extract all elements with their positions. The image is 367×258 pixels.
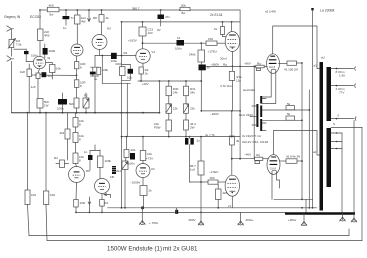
wire column 306: [305, 199, 307, 213]
svg-text:4.7k 11w: 4.7k 11w: [220, 84, 233, 88]
svg-text:R1: R1: [105, 201, 109, 205]
wire bus tail: [158, 81, 160, 113]
resistor GU81-2 screen: [279, 160, 286, 162]
wire V2 cathode: [99, 50, 101, 56]
svg-text:aU: aU: [321, 56, 325, 60]
svg-text:10R: 10R: [80, 201, 86, 205]
svg-text:a2: a2: [313, 150, 317, 154]
wire sense arrow: [88, 197, 90, 212]
svg-text:7.5k: 7.5k: [16, 42, 22, 46]
transformer output secondary bar upper: [327, 67, 332, 121]
svg-text:103: 103: [148, 31, 153, 35]
label La 230V: [311, 8, 313, 10]
resistor chain A2: [75, 80, 79, 88]
wire stub to foot +700v: [141, 208, 143, 221]
transformer heater primary bar: [256, 104, 258, 127]
svg-text:100u: 100u: [57, 107, 64, 111]
wire sub rail: [122, 21, 241, 23]
svg-text:240k: 240k: [189, 53, 196, 57]
capacitor V1 bypass: [42, 72, 47, 77]
pentode GU81-2: [267, 155, 280, 175]
resistor left col b1: [75, 113, 77, 118]
svg-text:Gegenç IN: Gegenç IN: [4, 15, 21, 19]
resistor chain A3: [74, 98, 79, 108]
svg-text:−860V: −860V: [211, 63, 220, 67]
wire S tap: [331, 127, 362, 129]
svg-text:V2: V2: [151, 167, 155, 171]
wire V4 cathode to grid R: [231, 52, 233, 72]
foot 280Vn: [240, 212, 242, 221]
resistor V1 anode: [39, 10, 41, 29]
resistor right of V1: [46, 63, 53, 65]
svg-text:2u: 2u: [197, 139, 201, 143]
vertical column x121.5: [121, 22, 123, 208]
capacitor stage2: [128, 69, 133, 74]
pentode V4 EL34: [225, 32, 239, 52]
svg-text:+10V: +10V: [142, 82, 149, 86]
svg-text:1.9U: 1.9U: [339, 73, 345, 77]
svg-text:5k: 5k: [287, 102, 291, 106]
resistor V2 anode 4k: [101, 10, 103, 15]
svg-text:3x9.2V 1.5A 10L84: 3x9.2V 1.5A 10L84: [242, 140, 269, 144]
svg-text:1u5: 1u5: [31, 85, 36, 89]
svg-text:4R5: 4R5: [44, 34, 50, 38]
capacitor cluster 100u: [62, 93, 64, 99]
node: [142, 42, 203, 44]
wire tap 8 Ohm: [331, 68, 354, 70]
pentode GU81-1: [267, 54, 280, 74]
foot right end: [353, 214, 355, 219]
svg-text:77V: 77V: [339, 90, 344, 94]
svg-text:150: 150: [210, 176, 215, 180]
resistor bottom-left 1: [25, 190, 30, 205]
svg-text:5k6: 5k6: [69, 102, 74, 106]
svg-text:2k4: 2k4: [60, 131, 65, 135]
svg-text:S: S: [333, 122, 335, 126]
svg-text:150: 150: [208, 37, 213, 41]
svg-text:4k: 4k: [106, 16, 110, 20]
svg-text:1n: 1n: [84, 150, 88, 154]
svg-text:24k: 24k: [173, 91, 178, 95]
svg-text:R4: R4: [54, 156, 58, 160]
svg-text:+ 700v: + 700v: [149, 221, 159, 225]
wire top B+ rail: [41, 9, 240, 11]
potentiometer stack1: [166, 104, 172, 114]
svg-text:1000: 1000: [49, 49, 56, 53]
triode V1: [33, 56, 45, 68]
vertical column x127.3: [126, 83, 128, 136]
svg-text:4k: 4k: [236, 139, 240, 143]
svg-text:1k: 1k: [145, 72, 149, 76]
svg-text:P5W: P5W: [154, 126, 161, 130]
svg-text:Rg: Rg: [257, 62, 261, 66]
wire grid line y43.2: [143, 42, 207, 44]
resistor GU81-2 grid: [255, 157, 263, 160]
svg-text:ECC83: ECC83: [30, 15, 41, 19]
resistor R400 on rail: [47, 7, 59, 12]
input jack 1: [7, 26, 14, 31]
wire screen column: [301, 63, 303, 199]
svg-text:5k: 5k: [287, 112, 291, 116]
wire feedback loop A: [29, 235, 349, 237]
svg-text:La 230Bit: La 230Bit: [320, 9, 334, 13]
capacitor splitter: [130, 153, 135, 160]
potentiometer trim: [85, 93, 87, 98]
svg-text:GU 8: GU 8: [269, 65, 276, 69]
resistor V4 screen: [222, 22, 224, 27]
svg-text:1k: 1k: [214, 27, 218, 31]
wire cathode link: [46, 74, 76, 76]
wire GU81-2 anode loop: [274, 131, 320, 156]
resistor R750 on rail: [180, 7, 190, 10]
svg-text:240: 240: [32, 73, 37, 77]
svg-text:42 K4b 3N: 42 K4b 3N: [286, 155, 300, 159]
svg-text:260v+: 260v+: [246, 218, 255, 222]
svg-text:−17EU: −17EU: [209, 170, 218, 174]
svg-text:R40: R40: [116, 62, 122, 66]
svg-text:0V: 0V: [157, 28, 161, 32]
svg-text:2k: 2k: [149, 189, 153, 193]
svg-text:N3: N3: [107, 27, 111, 31]
resistor heater a: [262, 109, 309, 111]
svg-text:R6: R6: [86, 169, 90, 173]
junction blob: [175, 210, 178, 214]
wire jack2 ground: [10, 48, 12, 113]
wire pot to cap: [14, 48, 26, 50]
wire y64 to GU81 grid: [206, 65, 256, 67]
resistor V4b grid: [208, 180, 218, 184]
resistor splitter top: [126, 137, 128, 150]
svg-text:100: 100: [50, 193, 55, 197]
svg-text:280V: 280V: [189, 218, 196, 222]
svg-text:FB: FB: [110, 175, 114, 179]
wire right loop vertical: [361, 128, 363, 241]
node fat junction: [141, 206, 144, 209]
transformer heater secondary bars: [260, 96, 262, 104]
wire mains feed: [250, 116, 256, 118]
resistor chain A1: [75, 62, 79, 69]
potentiometer splitter: [125, 158, 128, 162]
wire tap 4 Ohm: [331, 85, 354, 87]
svg-text:50k: 50k: [181, 4, 186, 8]
svg-text:4u: 4u: [94, 77, 98, 81]
triode V6: [69, 167, 85, 183]
grid connector glyph 2: [255, 161, 260, 164]
foot -280V: [200, 182, 202, 221]
wire bias column: [253, 66, 255, 158]
svg-text:2x EL34: 2x EL34: [210, 13, 223, 17]
resistor stack2 bottom: [184, 120, 189, 130]
svg-text:24k: 24k: [190, 91, 195, 95]
resistor bottom-left 2: [44, 191, 49, 205]
svg-text:4k5: 4k5: [223, 191, 228, 195]
svg-text:1k8: 1k8: [20, 70, 25, 74]
wire V4b cathode: [231, 196, 233, 208]
wire to V4 grid: [217, 42, 225, 44]
glyph FB dark: [112, 166, 116, 174]
resistor V6 grid: [56, 163, 60, 165]
triode V2: [92, 35, 107, 50]
resistor below V5: [142, 178, 144, 186]
resistor GU81-1 screen: [279, 62, 288, 64]
resistor stack2 top R31: [185, 81, 187, 86]
wire heater stub 2: [262, 72, 276, 103]
wire ground bus: [11, 112, 159, 114]
wire lower taps: [331, 133, 342, 149]
wire y57: [95, 55, 136, 57]
resistor stage2 b: [120, 67, 126, 76]
wire heater taps short: [252, 99, 266, 131]
wire column x309.3: [308, 90, 310, 208]
ground foot +700v: [140, 221, 146, 225]
capacitor 2u bottom path: [189, 136, 191, 138]
resistor 240k: [200, 43, 202, 50]
wire right vertical stub: [348, 229, 350, 236]
svg-text:2W: 2W: [190, 126, 195, 130]
resistor left col a: [67, 113, 69, 129]
svg-text:v1: v1: [228, 204, 232, 208]
resistor left col b2: [75, 127, 77, 133]
svg-text:100: 100: [31, 193, 36, 197]
svg-text:10k: 10k: [131, 148, 136, 152]
resistor 86k: [200, 137, 202, 161]
transformer output secondary bar lower: [327, 128, 332, 187]
wire column x312.5: [312, 10, 314, 208]
capacitor 47n at rail: [65, 10, 67, 16]
svg-text:+900v: +900v: [288, 218, 297, 222]
svg-text:100k: 100k: [105, 159, 112, 163]
svg-text:P2: P2: [84, 94, 88, 98]
svg-text:R8: R8: [93, 16, 97, 20]
wire V7 cathode: [101, 194, 103, 200]
capacitor input coupling: [24, 51, 29, 54]
grid connector glyph: [256, 68, 260, 70]
wire bottom y208: [108, 207, 317, 209]
svg-text:V1: V1: [152, 50, 156, 54]
capacitor V2 cathode: [111, 53, 117, 59]
svg-text:41: 41: [47, 56, 51, 60]
node: [121, 55, 123, 57]
svg-text:−86V: −86V: [244, 61, 251, 65]
svg-text:380.7: 380.7: [132, 6, 140, 10]
svg-text:3x 19/2V 7.1A: 3x 19/2V 7.1A: [242, 134, 261, 138]
capacitor grid blob: [44, 44, 46, 48]
svg-text:100n: 100n: [175, 47, 182, 51]
svg-text:1W: 1W: [44, 104, 49, 108]
wire V1b cathode: [76, 56, 78, 62]
resistor stack1 top R30: [168, 81, 170, 86]
wire grid left: [189, 181, 208, 183]
svg-text:−200V: −200V: [210, 112, 219, 116]
svg-text:100n: 100n: [128, 162, 135, 166]
capacitor coupling top: [177, 40, 185, 46]
triode V7: [95, 179, 110, 194]
resistor left col b3: [75, 143, 77, 154]
svg-text:−1006V: −1006V: [130, 181, 140, 185]
wire thick HV bus: [285, 212, 355, 215]
wire -200V link: [201, 110, 240, 112]
svg-text:41 100 2H: 41 100 2H: [284, 68, 298, 72]
triode V5: [136, 164, 150, 178]
resistor V4 cathode 4k7: [229, 71, 234, 80]
wire -460V stub: [232, 158, 255, 160]
resistor V4 grid: [206, 41, 217, 45]
wire feedback loop B: [47, 240, 362, 242]
svg-text:Rg: Rg: [256, 153, 260, 157]
capacitor 8n: [199, 65, 206, 71]
wire jack to pot: [10, 29, 12, 40]
triode V3: [136, 49, 150, 63]
svg-text:10k: 10k: [147, 152, 152, 156]
svg-text:10k: 10k: [56, 67, 61, 71]
svg-text:2k4: 2k4: [116, 169, 121, 173]
wire V4 anode: [231, 22, 233, 32]
wire y136.6: [122, 136, 241, 138]
resistor cluster 5k6: [37, 99, 43, 109]
svg-text:+73V: +73V: [146, 157, 153, 161]
wire feedback y81: [138, 80, 201, 82]
svg-text:−46V: −46V: [244, 152, 251, 156]
wire GU81-1 anode loop: [273, 26, 320, 69]
svg-text:GU 8: GU 8: [270, 166, 277, 170]
wire B+ column x240: [239, 10, 241, 159]
resistor heater b: [262, 119, 302, 121]
foot under bus: [342, 214, 344, 218]
resistor chain B: [94, 56, 96, 68]
wire heater stub 1: [262, 72, 271, 97]
transformer output primary bar: [320, 62, 324, 211]
pentode V4b EL34: [225, 175, 239, 196]
wire tap 0: [331, 118, 354, 120]
wire bottom y212.3: [76, 211, 285, 213]
svg-text:1u: 1u: [63, 26, 67, 30]
wire lower secondary vertical: [341, 133, 343, 214]
wire GU81-2 cathode: [272, 173, 280, 199]
svg-text:x5 1/4W: x5 1/4W: [265, 10, 276, 14]
resistor mid column: [231, 111, 233, 136]
svg-text:+17EU: +17EU: [208, 50, 217, 54]
resistor above V5: [142, 137, 144, 151]
resistor 10k top: [76, 10, 78, 15]
resistor left 1k8: [28, 68, 30, 70]
svg-text:Heiztrafo: Heiztrafo: [243, 88, 255, 92]
svg-text:10: 10: [177, 36, 181, 40]
resistor V1 cathode: [38, 69, 40, 73]
resistor stack1 bottom: [166, 120, 172, 131]
svg-text:+163V: +163V: [128, 39, 137, 43]
svg-text:4x 7.7k: 4x 7.7k: [205, 133, 215, 137]
wire y202: [274, 198, 313, 200]
resistor bias 100k: [99, 150, 101, 156]
vertical columns to bottom-left resistors: [27, 113, 29, 190]
capacitor bias left: [90, 145, 100, 151]
svg-text:22k: 22k: [190, 107, 195, 111]
svg-text:47n: 47n: [165, 15, 170, 19]
resistor V4b cathode: [217, 184, 219, 189]
capacitor 47n at rail right: [160, 10, 162, 15]
svg-text:400: 400: [49, 4, 54, 8]
svg-text:22k: 22k: [173, 107, 178, 111]
triode V1b: [71, 44, 83, 56]
input jack 2: [7, 56, 14, 61]
resistor bottom c: [74, 200, 79, 208]
svg-text:Tv: Tv: [71, 16, 75, 20]
svg-text:4W: 4W: [81, 20, 86, 24]
wire V3 cathode: [142, 63, 144, 67]
foot +900v: [303, 214, 305, 222]
svg-text:Rg: Rg: [223, 63, 227, 67]
node bus junctions: [27, 112, 161, 114]
svg-text:1500W Endstufe (1): 1500W Endstufe (1): [107, 246, 162, 253]
wire right return vertical: [353, 121, 355, 214]
potentiometer 1M: [9, 40, 14, 48]
arrow glyph: [88, 10, 91, 22]
resistor V3 anode: [142, 22, 144, 27]
resistor GU81-1 grid: [256, 65, 264, 68]
svg-text:1u0: 1u0: [190, 168, 195, 172]
svg-text:mit 2x GU81: mit 2x GU81: [163, 246, 198, 253]
svg-text:10u: 10u: [127, 76, 132, 80]
resistor stage2 a: [101, 56, 103, 84]
wire y83.3: [102, 82, 130, 84]
svg-text:a1: a1: [314, 64, 318, 68]
svg-text:20mf: 20mf: [220, 57, 227, 61]
svg-text:R4: R4: [124, 51, 128, 55]
potentiometer stack2: [184, 104, 189, 114]
node rail junctions: [39, 9, 232, 23]
wire V6 cathode: [75, 183, 78, 200]
resistor bottom d: [100, 200, 105, 207]
